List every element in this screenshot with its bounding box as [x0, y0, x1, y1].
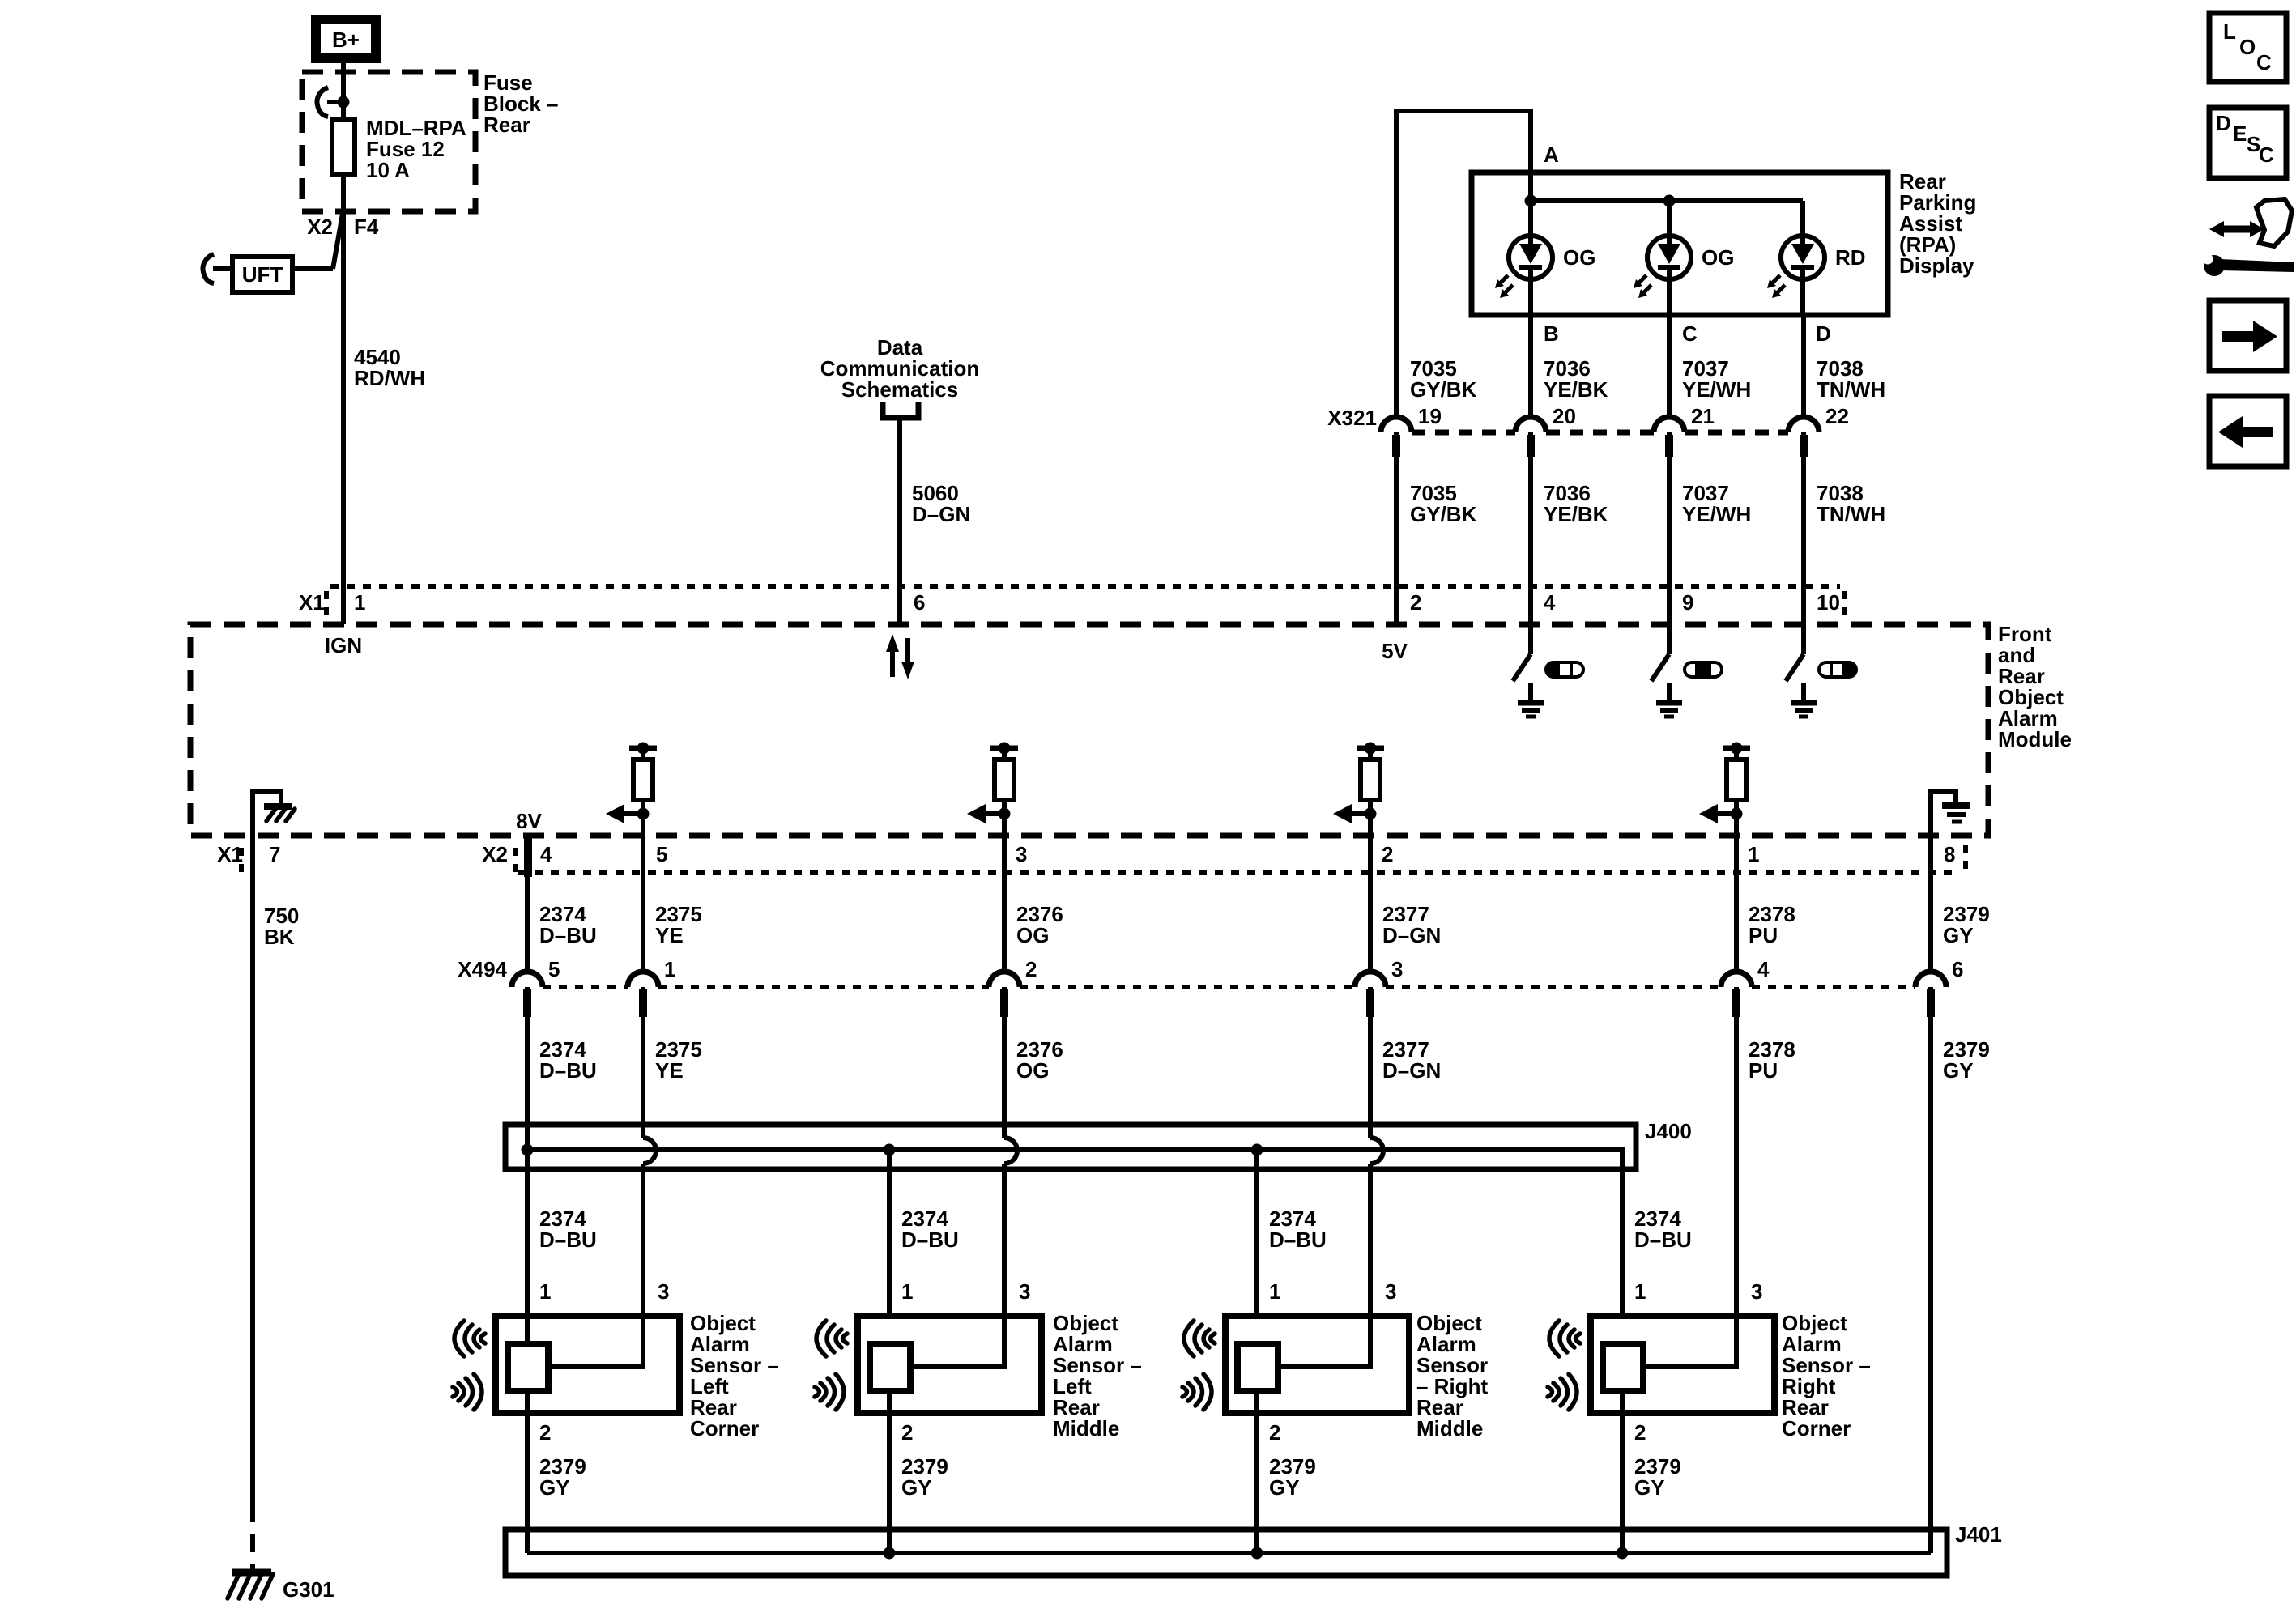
svg-text:Rear: Rear [483, 113, 530, 137]
svg-text:7: 7 [269, 842, 280, 866]
svg-text:D–BU: D–BU [901, 1228, 959, 1252]
svg-text:O: O [2239, 35, 2256, 59]
svg-text:GY/BK: GY/BK [1410, 502, 1477, 526]
sensor 1 pin labels [539, 1279, 669, 1445]
splice pack J400 box [505, 1125, 1636, 1169]
connector X494 pin 6 [1915, 957, 1963, 1017]
svg-text:2: 2 [1025, 957, 1037, 981]
icon connector tool [2203, 199, 2294, 276]
label 2379 GY sensor 4 [1634, 1454, 1681, 1500]
wire labels row 2374-2379 upper [539, 902, 1990, 947]
svg-text:Display: Display [1899, 253, 1974, 278]
svg-text:3: 3 [1016, 842, 1027, 866]
UFT box [232, 257, 292, 292]
svg-text:Corner: Corner [1782, 1416, 1851, 1440]
svg-text:Middle: Middle [1416, 1416, 1483, 1440]
svg-text:GY: GY [1943, 1058, 1974, 1083]
svg-text:YE/WH: YE/WH [1682, 377, 1751, 402]
ground G301 [228, 1572, 273, 1598]
svg-text:20: 20 [1553, 404, 1576, 428]
sensor 3 pin 2 wire [1254, 1391, 1259, 1553]
connector X494 pin 5 [512, 957, 560, 1017]
junction dot J400 s1 [522, 1144, 534, 1156]
svg-text:3: 3 [1391, 957, 1403, 981]
svg-text:8: 8 [1944, 842, 1955, 866]
X321 dashed links [1412, 430, 1788, 436]
wire 750 BK [250, 836, 255, 1571]
svg-text:Schematics: Schematics [841, 377, 959, 402]
label Fuse Block - Rear [483, 70, 559, 137]
connector X321 pin 21 [1654, 404, 1715, 457]
wire 5060 D-GN [897, 418, 902, 624]
connector terminal hook at fuse input [317, 87, 343, 117]
sound waves sensor 3 [1182, 1321, 1215, 1410]
svg-text:YE/BK: YE/BK [1544, 377, 1608, 402]
svg-text:RD: RD [1835, 245, 1866, 270]
svg-text:2: 2 [1634, 1420, 1646, 1445]
fuse MDL-RPA Fuse 12 10 A [332, 116, 466, 182]
connector X321 pin 19 [1381, 404, 1442, 457]
svg-text:YE: YE [655, 923, 684, 947]
label sensor 2 description [1053, 1311, 1142, 1440]
svg-text:2: 2 [1382, 842, 1393, 866]
svg-text:3: 3 [658, 1279, 669, 1304]
svg-text:YE: YE [655, 1058, 684, 1083]
connector X2 dotted line [516, 845, 1966, 874]
junction dot display bus 2 [1663, 195, 1676, 207]
pull-up resistor R1 with signal arrow [606, 743, 657, 836]
wires module to X494 [527, 836, 1931, 972]
splice pack J401 box [505, 1530, 1947, 1576]
svg-text:2: 2 [1269, 1420, 1280, 1445]
svg-text:GY: GY [1943, 923, 1974, 947]
svg-text:1: 1 [1634, 1279, 1646, 1304]
icon LOC [2209, 13, 2286, 82]
svg-text:YE/BK: YE/BK [1544, 502, 1608, 526]
junction dot J400 s2 [884, 1144, 896, 1156]
svg-text:C: C [2256, 50, 2272, 74]
wire UFT to main feed [292, 266, 333, 271]
label Front and Rear Object Alarm Module [1998, 622, 2072, 751]
rear parking assist display box [1472, 172, 1888, 315]
svg-text:2: 2 [539, 1420, 551, 1445]
svg-text:D–BU: D–BU [539, 1228, 597, 1252]
sound waves sensor 1 [453, 1321, 485, 1410]
object alarm sensor left rear corner [496, 1316, 679, 1413]
junction dot J401 s3 [1251, 1547, 1263, 1560]
connector X494 pin 1 [628, 957, 675, 1017]
sound waves sensor 2 [815, 1321, 847, 1410]
svg-text:3: 3 [1385, 1279, 1396, 1304]
wire B+ to fuse block [341, 63, 346, 120]
sensor 3 pin labels [1269, 1279, 1396, 1445]
label 4540 RD/WH [354, 345, 425, 390]
svg-text:GY: GY [1634, 1475, 1665, 1500]
J400 bus wire [527, 1150, 1622, 1316]
junction dot J401 s2 [884, 1547, 896, 1560]
connector X1 dotted line [326, 586, 1844, 622]
LED indicator D red [1767, 236, 1825, 315]
wires display to X321 [1531, 315, 1804, 417]
sensor 2 pin 2 wire [887, 1391, 892, 1553]
UFT connector terminal hook [203, 254, 232, 283]
svg-text:GY: GY [901, 1475, 932, 1500]
svg-text:5V: 5V [1382, 639, 1408, 663]
svg-text:B: B [1544, 321, 1559, 346]
connector X321 pin 20 [1515, 404, 1576, 457]
svg-text:9: 9 [1682, 590, 1693, 615]
J401 bus wire [527, 1551, 1931, 1555]
wire labels 7035-7038 upper [1410, 356, 1885, 402]
junction dot display bus 1 [1525, 195, 1537, 207]
B+ battery positive voltage box [311, 15, 381, 63]
svg-text:6: 6 [914, 590, 925, 615]
svg-text:B+: B+ [332, 28, 360, 52]
svg-text:D–BU: D–BU [539, 923, 597, 947]
wire 4540 RD/WH from fuse to module X1-1 [341, 174, 346, 624]
wires X321 to module [1396, 432, 1804, 624]
wire 2377 D-GN with hop over J400 bus [1370, 987, 1383, 1367]
svg-text:Module: Module [1998, 727, 2072, 751]
wire labels 2374 D-BU sensor drops [539, 1206, 1692, 1252]
wire 2379 GY to J401 [1928, 987, 1933, 1553]
svg-text:C: C [2259, 143, 2274, 167]
connector X321 pin 22 [1788, 404, 1849, 457]
svg-text:OG: OG [1702, 245, 1734, 270]
svg-text:L: L [2223, 19, 2236, 44]
svg-text:X2: X2 [307, 215, 333, 239]
wire labels row 2374-2379 lower [539, 1037, 1990, 1083]
svg-text:E: E [2233, 121, 2247, 146]
svg-text:D–GN: D–GN [1382, 923, 1441, 947]
pull-up resistor R4 with signal arrow [1699, 743, 1750, 836]
label sensor 4 description [1782, 1311, 1871, 1440]
LED indicator B orange [1495, 236, 1553, 315]
junction dot at fuse input [338, 96, 350, 109]
wire 2374 D-BU into J400 [525, 987, 530, 1344]
off-page bracket data communication [883, 402, 918, 418]
distance indicator segment icon 3 [1819, 662, 1856, 677]
svg-text:10: 10 [1817, 590, 1840, 615]
svg-text:1: 1 [1269, 1279, 1280, 1304]
label sensor 3 description [1416, 1311, 1488, 1440]
svg-text:GY/BK: GY/BK [1410, 377, 1477, 402]
sensor 1 pin 2 wire [525, 1391, 530, 1553]
svg-text:D: D [1816, 321, 1831, 346]
sensor 4 pin labels [1634, 1279, 1762, 1445]
connector X494 pin 2 [989, 957, 1037, 1017]
svg-text:BK: BK [264, 925, 295, 949]
svg-text:D–BU: D–BU [1269, 1228, 1327, 1252]
front and rear object alarm module dashed box [190, 624, 1988, 836]
svg-text:OG: OG [1563, 245, 1595, 270]
svg-text:GY: GY [539, 1475, 570, 1500]
svg-text:4: 4 [1757, 957, 1770, 981]
svg-text:J400: J400 [1645, 1119, 1692, 1143]
svg-text:5: 5 [656, 842, 667, 866]
wire loop 7035 to display pin A [1396, 111, 1531, 417]
svg-text:10 A: 10 A [366, 158, 410, 182]
svg-text:Middle: Middle [1053, 1416, 1119, 1440]
label Data Communication Schematics [820, 335, 979, 402]
distance indicator segment icon 1 [1546, 662, 1583, 677]
svg-text:X494: X494 [458, 957, 507, 981]
svg-text:TN/WH: TN/WH [1817, 377, 1885, 402]
svg-text:2: 2 [1410, 590, 1421, 615]
svg-text:X2: X2 [482, 842, 508, 866]
svg-text:UFT: UFT [242, 262, 283, 287]
bidirectional signal arrows at module pin 6 [886, 634, 914, 679]
svg-text:3: 3 [1751, 1279, 1762, 1304]
pull-up resistor R3 with signal arrow [1333, 743, 1384, 836]
X1-7 pin labels [217, 842, 280, 874]
svg-text:4: 4 [1544, 590, 1556, 615]
svg-text:1: 1 [664, 957, 675, 981]
svg-text:OG: OG [1016, 1058, 1049, 1083]
sensor 4 pin 2 wire [1620, 1391, 1625, 1553]
svg-text:D–GN: D–GN [1382, 1058, 1441, 1083]
svg-text:X321: X321 [1327, 406, 1377, 430]
svg-text:2: 2 [901, 1420, 913, 1445]
icon arrow right [2209, 300, 2286, 371]
svg-text:21: 21 [1691, 404, 1715, 428]
X2 pin labels [482, 842, 1955, 866]
svg-text:X1: X1 [299, 590, 325, 615]
svg-text:F4: F4 [354, 215, 379, 239]
svg-text:1: 1 [539, 1279, 551, 1304]
internal ground at module pin 8 [1931, 789, 1970, 836]
icon arrow left [2209, 396, 2286, 466]
svg-text:4: 4 [540, 842, 552, 866]
label 2379 GY sensor 3 [1269, 1454, 1316, 1500]
wire 2375 YE with hop over J400 bus [643, 987, 656, 1367]
object alarm sensor right rear middle [1225, 1316, 1409, 1413]
switch to ground at module pin 10 [1786, 624, 1817, 717]
sensor 2 pin labels [901, 1279, 1030, 1445]
svg-text:22: 22 [1825, 404, 1849, 428]
svg-text:19: 19 [1418, 404, 1442, 428]
label 5060 D-GN [912, 481, 970, 526]
display internal bus wire [1531, 201, 1803, 243]
svg-text:G301: G301 [283, 1577, 334, 1602]
wire 2378 PU [1734, 987, 1739, 1367]
svg-text:IGN: IGN [325, 633, 362, 657]
icon DESC [2209, 108, 2286, 178]
svg-text:YE/WH: YE/WH [1682, 502, 1751, 526]
pull-up resistor R2 with signal arrow [967, 743, 1018, 836]
X1 pin labels [299, 590, 1840, 615]
svg-text:TN/WH: TN/WH [1817, 502, 1885, 526]
svg-text:PU: PU [1749, 1058, 1778, 1083]
junction dot J400 s3 [1251, 1144, 1263, 1156]
svg-text:1: 1 [1748, 842, 1759, 866]
distance indicator segment icon 2 [1685, 662, 1722, 677]
label 750 BK [264, 904, 299, 949]
svg-text:6: 6 [1952, 957, 1963, 981]
svg-text:GY: GY [1269, 1475, 1300, 1500]
svg-text:C: C [1682, 321, 1698, 346]
svg-text:D: D [2216, 111, 2231, 135]
svg-text:5: 5 [548, 957, 560, 981]
svg-text:A: A [1544, 143, 1559, 167]
object alarm sensor left rear middle [858, 1316, 1042, 1413]
svg-text:3: 3 [1019, 1279, 1030, 1304]
svg-text:J401: J401 [1955, 1522, 2002, 1547]
wire 2376 OG with hop over J400 bus [1004, 987, 1017, 1367]
label 2379 GY sensor 2 [901, 1454, 948, 1500]
label Rear Parking Assist (RPA) Display [1899, 169, 1976, 278]
connector X2 F4 slash [307, 214, 379, 269]
svg-text:RD/WH: RD/WH [354, 366, 425, 390]
wire labels 7035-7038 lower [1410, 481, 1885, 526]
label 2379 GY sensor 1 [539, 1454, 586, 1500]
connector X494 pin 3 [1355, 957, 1403, 1017]
module pin 4 terminal stub 8V [524, 838, 532, 877]
connector X494 pin 4 [1721, 957, 1770, 1017]
svg-text:D–BU: D–BU [539, 1058, 597, 1083]
LED indicator C orange [1634, 236, 1691, 315]
svg-text:PU: PU [1749, 923, 1778, 947]
internal ground at module pin X1-7 [253, 789, 295, 836]
fuse block rear dashed box [302, 72, 475, 211]
label sensor 1 description [690, 1311, 779, 1440]
svg-text:1: 1 [354, 590, 365, 615]
svg-text:Corner: Corner [690, 1416, 759, 1440]
junction dot J401 s4 [1617, 1547, 1629, 1560]
svg-text:1: 1 [901, 1279, 913, 1304]
X494 dotted links [543, 985, 1915, 989]
sound waves sensor 4 [1548, 1321, 1580, 1410]
switch to ground at module pin 4 [1513, 624, 1544, 717]
svg-text:D–GN: D–GN [912, 502, 970, 526]
svg-text:OG: OG [1016, 923, 1049, 947]
switch to ground at module pin 9 [1651, 624, 1682, 717]
svg-text:8V: 8V [516, 809, 542, 833]
svg-text:D–BU: D–BU [1634, 1228, 1692, 1252]
object alarm sensor right rear corner [1591, 1316, 1774, 1413]
